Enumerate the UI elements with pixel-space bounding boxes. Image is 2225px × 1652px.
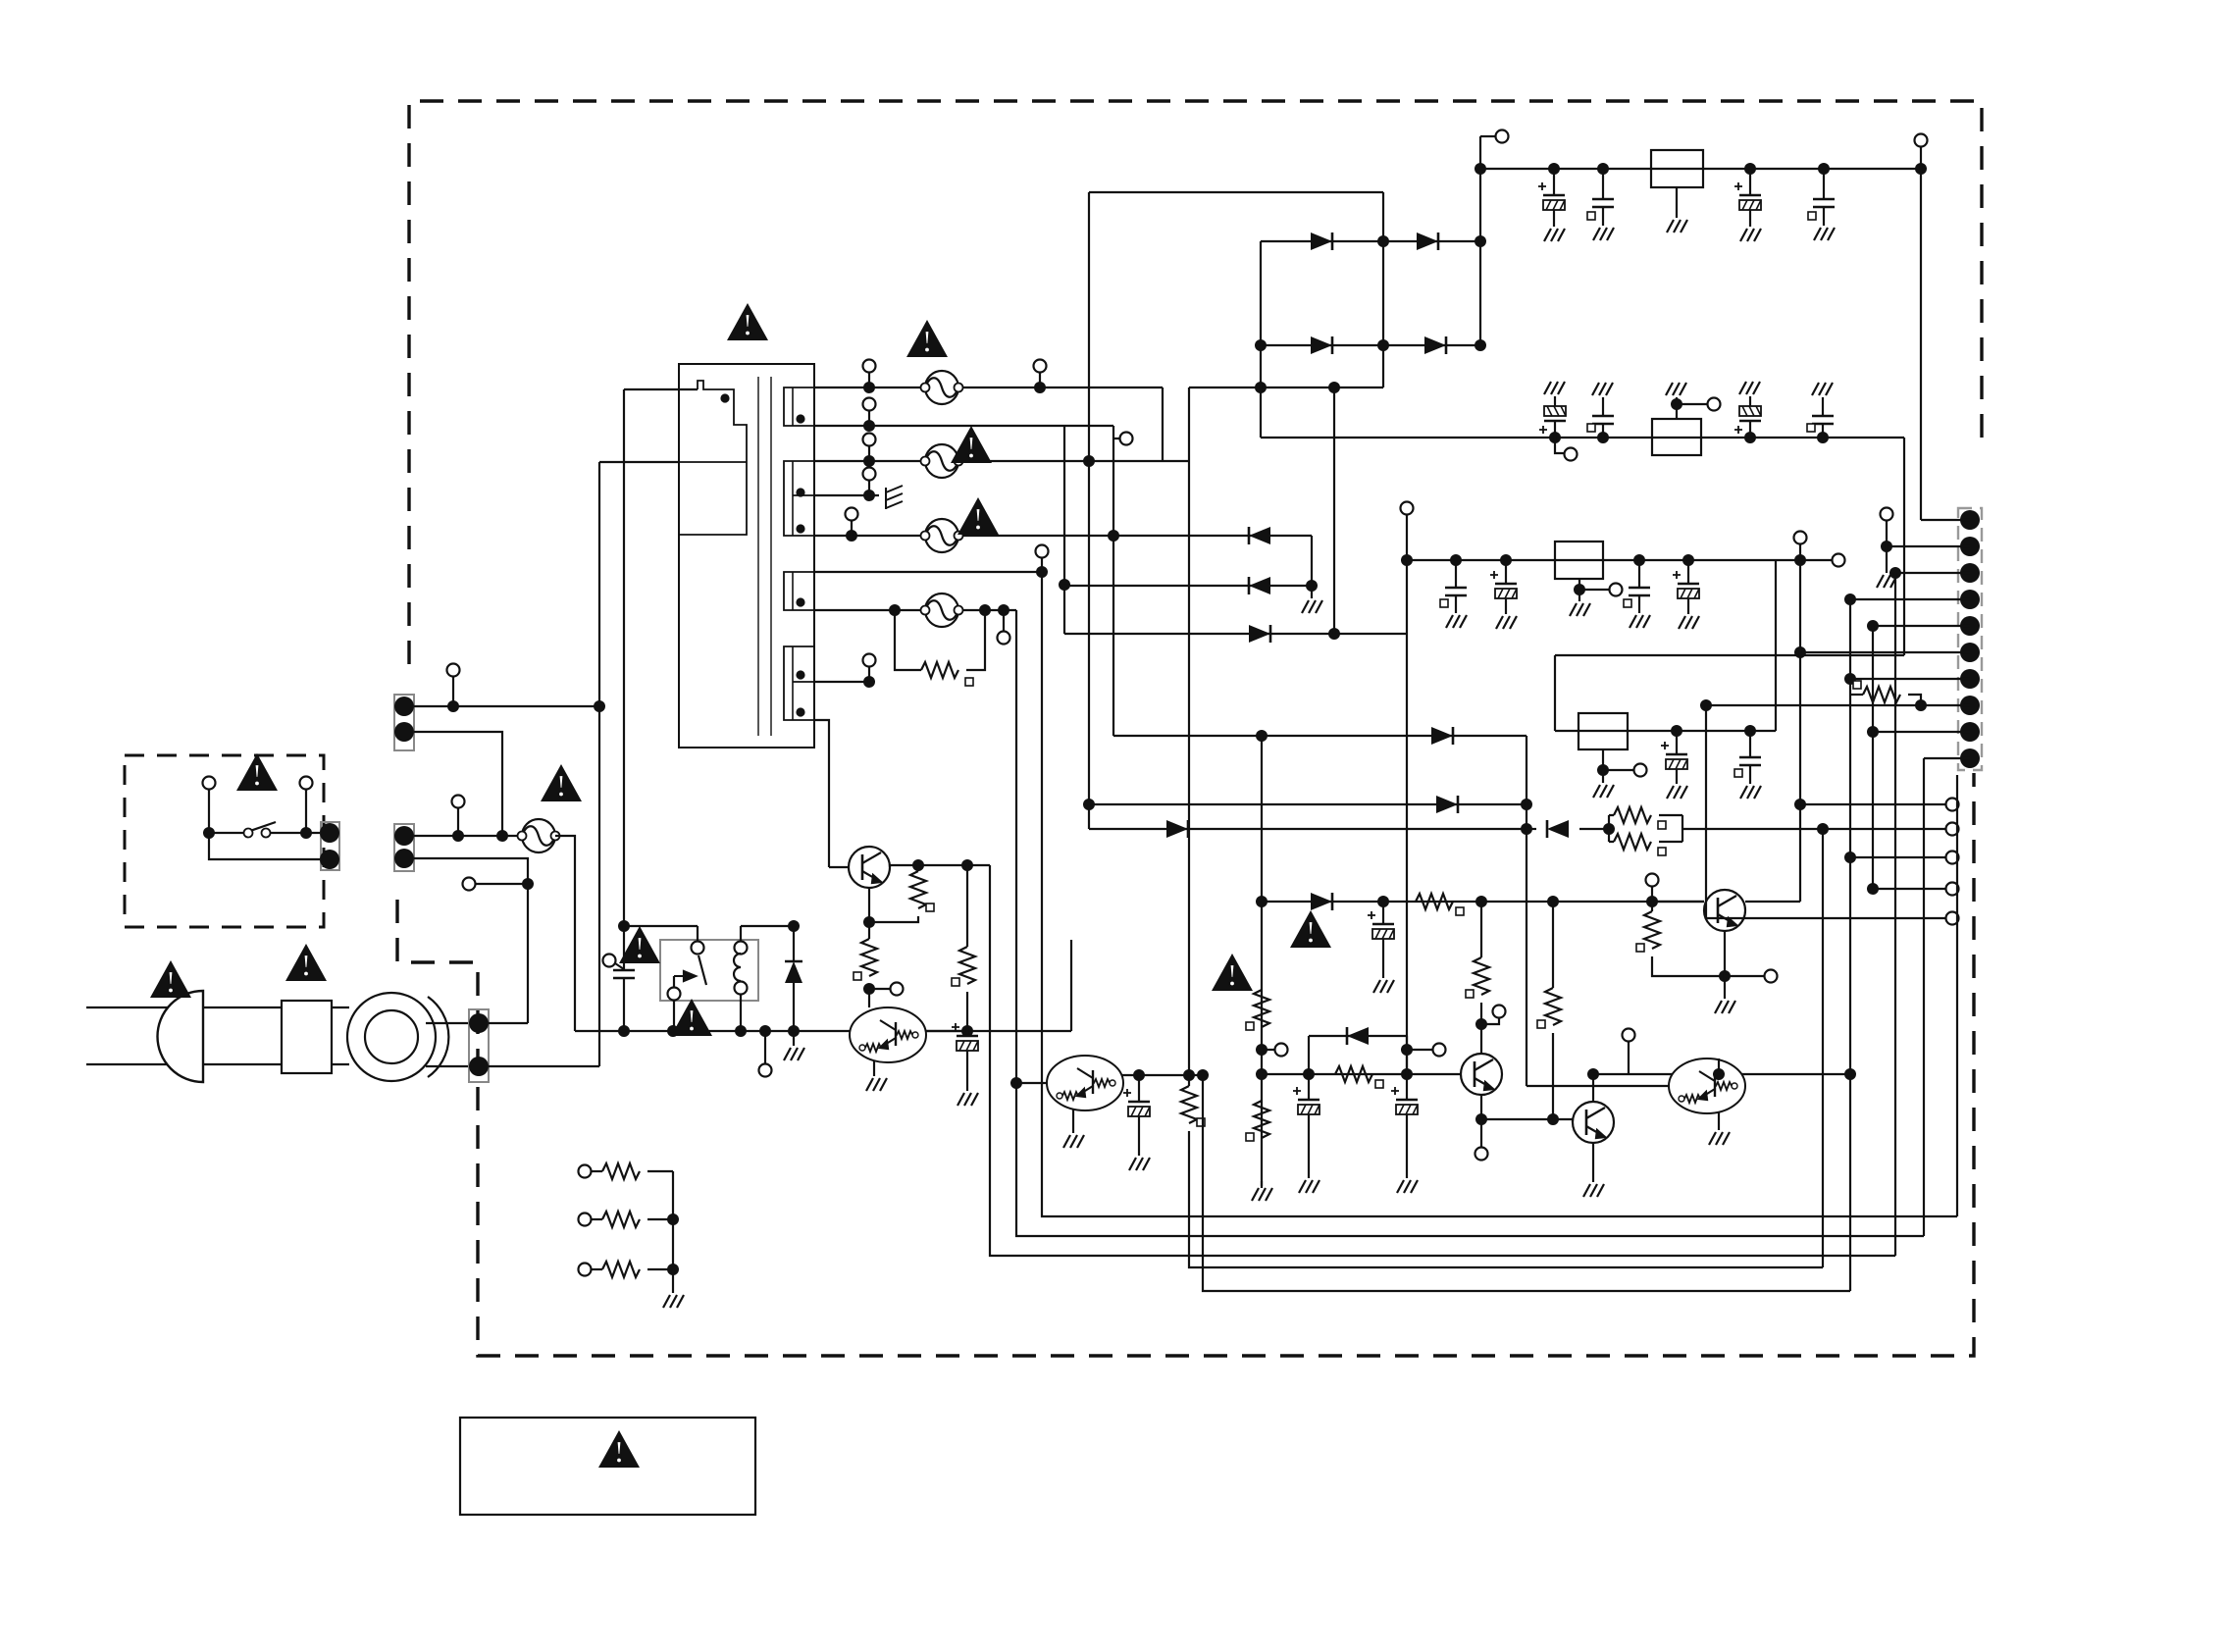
wire: secondary row 5 <box>814 571 1042 573</box>
test point <box>1496 130 1509 143</box>
node <box>1794 554 1806 566</box>
transistor Q204 <box>1461 1054 1502 1095</box>
connector CN101 <box>394 695 414 750</box>
wire: fuse out <box>555 836 575 1031</box>
fuse F104 <box>921 519 963 552</box>
wire: CN101-1 to node <box>414 705 599 707</box>
node <box>1867 620 1879 632</box>
wire: IC101 gnd <box>1676 187 1678 218</box>
capacitor C (electrolytic) <box>1490 571 1517 598</box>
ref marker <box>1456 907 1464 915</box>
diode D202 <box>1436 796 1458 813</box>
wire <box>917 865 919 871</box>
diode D102 <box>1417 232 1438 250</box>
test point <box>1634 764 1647 777</box>
wire stub <box>868 481 870 495</box>
wire: row4 drop <box>1311 536 1313 586</box>
chassis ground <box>886 486 903 509</box>
relay pin <box>668 988 681 1001</box>
input terminal <box>579 1213 592 1226</box>
diode D105 <box>1249 527 1270 544</box>
primary polarity dot <box>722 395 729 402</box>
wire <box>1311 586 1313 598</box>
relay pin <box>735 942 748 955</box>
resistor R103 <box>959 947 975 984</box>
test point <box>1946 883 1959 896</box>
wire: +V4 rail <box>1555 730 1776 732</box>
capacitor C (electrolytic) <box>1734 406 1761 434</box>
test point <box>863 468 876 481</box>
capacitor C101 <box>615 963 624 969</box>
wire: rect out rail <box>1479 136 1481 345</box>
ground <box>1302 600 1322 613</box>
node <box>735 1025 747 1037</box>
wire: AC return row <box>575 1030 1071 1032</box>
CN201 pin 10 <box>1960 749 1980 768</box>
wire stub <box>868 446 870 461</box>
node <box>1713 1068 1725 1080</box>
ground <box>1877 575 1897 588</box>
node <box>912 859 924 871</box>
ref marker <box>1658 848 1666 855</box>
wire: Q204 emitter <box>1480 1095 1482 1119</box>
diode D201 <box>1431 727 1453 745</box>
relay pin <box>692 942 704 955</box>
node <box>1475 339 1486 351</box>
wire: row8 <box>1064 633 1407 635</box>
wire <box>1602 169 1604 199</box>
wire <box>1609 814 1682 816</box>
wire <box>1552 1033 1554 1119</box>
node <box>1306 580 1318 592</box>
wire stub <box>1041 558 1043 572</box>
wire stub <box>1555 438 1564 453</box>
capacitor C (electrolytic) <box>1734 182 1761 210</box>
ref marker <box>1587 424 1595 432</box>
test point <box>1946 799 1959 811</box>
node <box>1867 883 1879 895</box>
test point <box>1034 360 1047 373</box>
wire: cluster rail <box>1526 736 1527 1086</box>
wire: Q206 base <box>1526 1085 1669 1087</box>
wire stub <box>868 373 870 387</box>
capacitor C <box>1812 416 1834 424</box>
capacitor C (electrolytic) <box>1539 406 1566 434</box>
wire: rail A <box>1799 560 1801 902</box>
wire: pin1 lead <box>1921 519 1970 521</box>
node <box>1587 1068 1599 1080</box>
test point <box>1946 823 1959 836</box>
wire: row1 jog <box>1162 387 1164 462</box>
node <box>1255 382 1267 393</box>
capacitor C103 (electrolytic) <box>1123 1089 1150 1116</box>
wire stub <box>1800 559 1832 561</box>
resistor R201 <box>1416 894 1453 909</box>
node <box>1475 896 1487 907</box>
node <box>1328 382 1340 393</box>
resistor R211 <box>1614 834 1651 850</box>
wire: Q102 emitter <box>873 1060 875 1076</box>
wire: rect left rail <box>1088 192 1090 829</box>
wire: plug to fuse <box>203 1063 282 1065</box>
wire <box>1687 598 1689 614</box>
node <box>1521 799 1532 810</box>
test point <box>1120 433 1133 445</box>
test point <box>998 632 1010 645</box>
regulator IC104 <box>1578 713 1628 749</box>
capacitor C <box>1813 199 1835 207</box>
node <box>618 920 630 932</box>
node <box>1844 852 1856 863</box>
wire <box>623 978 625 1031</box>
test point <box>863 398 876 411</box>
capacitor C204 (electrolytic) <box>1368 911 1394 939</box>
test point <box>1475 1148 1488 1161</box>
relay contact arm <box>699 955 706 985</box>
wire stub <box>1039 373 1041 387</box>
wire: long drop <box>1188 387 1190 1086</box>
wire <box>1553 210 1555 227</box>
ref marker <box>1853 681 1861 689</box>
warning symbol <box>285 944 327 981</box>
test point <box>863 434 876 446</box>
test point <box>1881 508 1893 521</box>
test point <box>1493 1006 1506 1018</box>
node <box>1744 432 1756 443</box>
wire <box>869 916 918 922</box>
ground <box>663 1295 684 1308</box>
AC plug P901 <box>158 991 204 1082</box>
node <box>788 1025 800 1037</box>
capacitor C (electrolytic) <box>1673 571 1699 598</box>
node <box>1682 554 1694 566</box>
node <box>889 604 901 616</box>
wire: Q207 base <box>1652 901 1704 903</box>
test point <box>759 1064 772 1077</box>
test point <box>891 983 904 996</box>
node <box>1256 1044 1268 1056</box>
relay coil <box>734 954 741 981</box>
resistor R30x <box>602 1163 640 1179</box>
wire <box>1308 1114 1310 1178</box>
wire <box>1676 731 1678 754</box>
diode D205 <box>1311 893 1332 910</box>
diode D104 <box>1424 336 1446 354</box>
warning symbol <box>619 926 660 963</box>
wire: CN102-2 down <box>414 858 528 1023</box>
test point <box>452 796 465 808</box>
wire <box>1455 560 1457 588</box>
wire stub <box>1579 589 1609 591</box>
resistor R102 <box>861 939 877 976</box>
node <box>863 676 875 688</box>
fuse F105 <box>921 594 963 627</box>
CN201 pin 9 <box>1960 722 1980 742</box>
ground <box>1739 382 1760 394</box>
diode D107 <box>1249 625 1270 643</box>
wire: aux rail <box>1063 425 1065 634</box>
wire <box>1822 424 1824 438</box>
wire: bus 2 <box>1016 610 1924 1236</box>
diode D106 <box>1249 577 1270 594</box>
wire: rail C <box>1849 599 1851 1291</box>
wire stub <box>1480 1119 1482 1147</box>
wire: F105 bypass <box>895 610 921 670</box>
node <box>1303 1068 1315 1080</box>
wire: +V1 to CN201 <box>1920 169 1922 520</box>
wire stub <box>1113 438 1119 439</box>
CN104 pin 1 <box>469 1013 489 1033</box>
node <box>1794 646 1806 658</box>
wire: IC103 gnd <box>1578 579 1580 590</box>
wire: Q102 out <box>925 1030 967 1032</box>
connector CN201 <box>1958 508 1982 770</box>
node <box>863 455 875 467</box>
ground <box>1446 615 1467 628</box>
ground <box>1373 980 1394 993</box>
ref marker <box>1636 944 1644 952</box>
ref marker <box>1537 1020 1545 1028</box>
wire: secondary row 1 <box>814 387 1163 388</box>
node <box>1817 823 1829 835</box>
node <box>618 1025 630 1037</box>
line filter L901 <box>347 993 436 1081</box>
test point <box>863 360 876 373</box>
wire: relay coil feed <box>741 925 794 927</box>
wire <box>1850 694 1863 696</box>
wire <box>1602 770 1604 783</box>
wire <box>1823 207 1825 226</box>
resistor R30x <box>602 1212 640 1227</box>
CN103 pin 1 <box>320 823 339 843</box>
wire: Q101 base <box>829 866 849 868</box>
wire: option stub 2 <box>1823 828 1945 830</box>
wire stub <box>851 521 853 536</box>
wire: Q204 collector rail <box>1480 902 1482 957</box>
wire <box>1886 521 1888 573</box>
node <box>1633 554 1645 566</box>
test point <box>846 508 858 521</box>
transformer secondary winding S3 <box>784 572 814 610</box>
node <box>1719 970 1731 982</box>
test point <box>1765 970 1778 983</box>
node <box>1500 554 1512 566</box>
ground <box>1740 229 1761 241</box>
wire <box>647 1170 673 1172</box>
node <box>1475 1113 1487 1125</box>
relay RY101 body <box>660 940 758 1001</box>
CN201 pin 7 <box>1960 669 1980 689</box>
wire: Q206 emitter <box>1718 1112 1720 1130</box>
node <box>1401 554 1413 566</box>
wire stub <box>1003 610 1005 631</box>
regulator IC102 <box>1652 419 1701 455</box>
node <box>1597 163 1609 175</box>
wire: pin7 lead <box>1850 678 1970 680</box>
wire: primary feed vertical <box>623 389 625 926</box>
wire: D206 loop <box>1308 1036 1310 1074</box>
wire stub <box>1481 1018 1499 1024</box>
wire: relay coil top <box>740 926 742 941</box>
node <box>1197 1069 1209 1081</box>
wire: rect link <box>1089 191 1383 193</box>
wire stub <box>869 988 890 990</box>
wire <box>1749 421 1751 438</box>
wire: to AC neutral <box>489 1065 599 1067</box>
resistor R208 <box>1181 1086 1197 1123</box>
wire <box>1554 396 1556 406</box>
node <box>1108 530 1119 542</box>
node <box>1256 1068 1268 1080</box>
node <box>667 1025 679 1037</box>
wire <box>1687 560 1689 584</box>
test point <box>1623 1029 1635 1042</box>
node <box>496 830 508 842</box>
resistor R205 <box>1474 957 1489 995</box>
wire: primary top lead <box>624 388 698 390</box>
ground <box>1544 382 1565 394</box>
wire: riser <box>1070 940 1072 1031</box>
node <box>1844 673 1856 685</box>
transformer T101 outline <box>679 364 814 748</box>
wire stub <box>868 667 870 682</box>
ref marker <box>1734 769 1742 777</box>
transformer secondary winding S1 <box>784 387 814 426</box>
wire: rail B <box>1822 829 1824 1267</box>
wire <box>1676 397 1678 404</box>
node <box>1401 1044 1413 1056</box>
node <box>1547 1113 1559 1125</box>
test point <box>1946 912 1959 925</box>
wire stub <box>1603 769 1633 771</box>
regulator IC101 <box>1651 150 1703 187</box>
node <box>1603 823 1615 835</box>
node <box>1646 896 1658 907</box>
wire <box>1651 902 1653 911</box>
wire: row8 riser <box>1333 387 1335 634</box>
wire <box>591 1170 602 1172</box>
ground <box>1397 1180 1418 1193</box>
wire <box>1676 769 1678 784</box>
CN102 pin 2 <box>394 849 414 868</box>
wire: bus 3 <box>1042 572 1957 1216</box>
diode D108 <box>785 961 802 983</box>
wire: Q206 collector <box>1718 1058 1720 1074</box>
capacitor C <box>1445 588 1467 595</box>
ground <box>1583 1184 1604 1197</box>
ground <box>1252 1188 1272 1201</box>
wire <box>1480 1003 1482 1054</box>
wire <box>1749 731 1751 757</box>
node <box>998 604 1009 616</box>
wire: relay contact out <box>673 1001 675 1031</box>
wire: CN101-2 down <box>414 732 502 836</box>
connector CN102 <box>394 824 414 871</box>
resistor R30x <box>602 1262 640 1277</box>
wire stub <box>1799 544 1801 560</box>
wire: secondary row 2 <box>814 425 1113 427</box>
ground <box>1496 616 1517 629</box>
node <box>1744 163 1756 175</box>
resistor R202 <box>1254 990 1269 1027</box>
wire <box>332 1063 349 1065</box>
test point <box>1794 532 1807 544</box>
resistor R206 <box>1545 988 1561 1025</box>
wire <box>1822 397 1824 416</box>
wire <box>591 1268 602 1270</box>
node <box>1255 339 1267 351</box>
node <box>1521 823 1532 835</box>
ground <box>1709 1132 1730 1145</box>
input terminal <box>579 1264 592 1276</box>
ground <box>957 1093 978 1106</box>
wire: rect mid rail <box>1382 192 1384 387</box>
wire: pin4 lead <box>1850 598 1970 600</box>
transistor Q103 (digital) <box>1047 1056 1123 1110</box>
capacitor C102 (electrolytic) <box>952 1023 978 1051</box>
node <box>1597 432 1609 443</box>
wire: secondary row 9 <box>814 681 869 683</box>
wire: bus 4 <box>1189 1131 1823 1267</box>
node <box>1183 1069 1195 1081</box>
node <box>863 382 875 393</box>
regulator IC103 <box>1555 542 1603 579</box>
wire: standby rail <box>1406 515 1408 1074</box>
node <box>1671 725 1682 737</box>
node <box>1889 567 1901 579</box>
wire: riser <box>1775 560 1777 731</box>
wire <box>966 1051 968 1091</box>
warning symbol <box>150 960 191 998</box>
wire <box>1578 590 1580 601</box>
wire: switch leads <box>209 790 306 833</box>
test point <box>447 664 460 677</box>
node <box>667 1264 679 1275</box>
node <box>1597 764 1609 776</box>
transformer primary winding <box>679 381 747 535</box>
wire: to Q205 base <box>1481 1119 1573 1122</box>
node <box>1401 1068 1413 1080</box>
CN201 pin 8 <box>1960 696 1980 715</box>
node <box>1548 163 1560 175</box>
node <box>1036 566 1048 578</box>
wire: to CN102-2 <box>489 1022 528 1024</box>
wire: diode row A <box>1261 240 1480 242</box>
ground <box>1630 615 1650 628</box>
wire: switch row <box>209 832 321 834</box>
test point <box>1946 852 1959 864</box>
wire: drive row <box>1262 901 1704 903</box>
wire: secondary row 4 <box>814 535 1312 537</box>
capacitor C101 terminal <box>603 955 616 967</box>
CN104 pin 2 <box>469 1057 489 1076</box>
transistor Q206 (digital) <box>1669 1058 1745 1113</box>
wire stub <box>764 1031 766 1063</box>
node <box>1817 432 1829 443</box>
wire: row7 <box>1064 585 1312 587</box>
wire <box>793 983 795 1031</box>
node <box>1818 163 1830 175</box>
capacitor C <box>1592 199 1614 207</box>
wire: relay supply row <box>624 925 698 927</box>
test point <box>863 654 876 667</box>
ground <box>1299 1180 1319 1193</box>
node <box>863 420 875 432</box>
connector CN103 <box>321 822 339 870</box>
node <box>1915 699 1927 711</box>
diode D203 <box>1166 820 1188 838</box>
dashed box: power switch unit <box>125 755 324 927</box>
